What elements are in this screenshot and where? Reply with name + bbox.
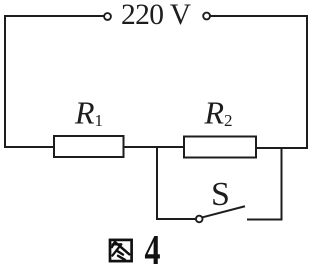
svg-text:S: S	[211, 176, 230, 213]
wire right vertical	[306, 16, 308, 148]
node junction between R1 and R2, wire down to switch	[156, 147, 158, 219]
switch S pole terminal (circle)	[196, 216, 203, 223]
svg-text:4: 4	[145, 228, 161, 270]
wire switch branch up to node right of R2	[281, 148, 283, 220]
wire left vertical	[4, 16, 6, 147]
resistor R1 (box)	[54, 136, 124, 157]
wire top-left horizontal	[5, 15, 103, 17]
svg-text:R1: R1	[74, 95, 103, 131]
wire top-right horizontal	[211, 15, 307, 17]
terminal right (circle)	[203, 13, 210, 20]
wire junction to switch pole	[157, 218, 195, 220]
resistor R2 (box)	[184, 137, 256, 158]
terminal left (circle)	[104, 13, 111, 20]
wire middle-left to R1	[5, 146, 54, 148]
svg-text:R2: R2	[204, 95, 233, 131]
switch S fixed contact wire	[248, 219, 282, 221]
switch S blade (open)	[203, 207, 244, 218]
svg-text:220 V: 220 V	[121, 0, 191, 31]
caption glyph 图 (figure) drawn as strokes	[110, 240, 132, 261]
wire R2 to right vertical	[256, 147, 307, 149]
wire R1 to R2	[124, 146, 185, 148]
